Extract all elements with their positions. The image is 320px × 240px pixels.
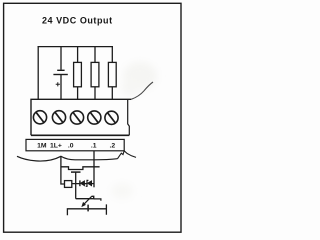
- battery B1: [53, 46, 67, 99]
- terminal label strip: [26, 139, 124, 150]
- wire: left drop to terminal 1M: [37, 46, 39, 99]
- svg-text:1L+: 1L+: [50, 142, 62, 149]
- zener D3 arrowhead: [82, 202, 86, 207]
- svg-text:24 VDC Output: 24 VDC Output: [42, 15, 113, 25]
- page border frame: [4, 3, 181, 232]
- label 1L+: [50, 142, 62, 149]
- screw terminal 4: [88, 111, 101, 124]
- torn edge curve upper right: [131, 82, 153, 99]
- load resistor L2: [91, 46, 99, 99]
- torn edge jag at strip corner: [118, 151, 137, 159]
- wire: gate row: [72, 183, 94, 185]
- resistor R1: [65, 181, 72, 188]
- load resistor L3: [108, 46, 116, 99]
- terminal block outline: [31, 99, 131, 135]
- screw terminal 3: [70, 111, 83, 124]
- screw terminal 5: [105, 111, 118, 124]
- svg-text:.1: .1: [91, 142, 97, 149]
- svg-text:.2: .2: [109, 142, 115, 149]
- svg-text:1M: 1M: [37, 142, 47, 149]
- wire: output sense vertical: [93, 151, 95, 188]
- label .0: [68, 142, 74, 149]
- wire: top supply bus: [38, 46, 113, 48]
- MOSFET Q1 gate lead: [75, 172, 77, 199]
- torn edge wavy line: [17, 156, 118, 161]
- diode D1: [80, 180, 85, 186]
- screw terminal 1: [33, 111, 46, 124]
- wire: gate lower run: [76, 196, 94, 198]
- screw terminal 2: [52, 111, 65, 124]
- label .1: [91, 142, 97, 149]
- label .2: [109, 142, 115, 149]
- zener D3 diagonal: [84, 196, 91, 204]
- wire: right jog: [94, 199, 101, 201]
- zener D3 cathode bar: [87, 205, 89, 212]
- svg-text:.0: .0: [68, 142, 74, 149]
- wire: 1L+ internal vertical: [61, 156, 65, 184]
- load resistor L1: [74, 46, 82, 99]
- MOSFET Q1 gate bar: [71, 171, 81, 173]
- zener D2: [86, 180, 92, 186]
- M rail: [67, 204, 106, 215]
- title: 24 VDC Output: [42, 15, 113, 25]
- wire: internal top rail with MOSFET channel: [61, 167, 100, 170]
- label 1M: [37, 142, 47, 149]
